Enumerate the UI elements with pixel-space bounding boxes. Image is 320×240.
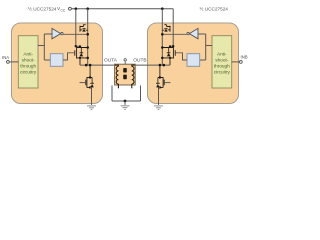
- svg-text:INB: INB: [241, 55, 248, 60]
- ground (right IC): [154, 106, 163, 110]
- wire OUTB from driver to bead block: [135, 64, 171, 66]
- wire Q6 gate (right): [164, 82, 170, 84]
- wire load return (left): [111, 86, 113, 102]
- junction dot P-gate node (right): [161, 33, 164, 36]
- svg-text:½ UCC27524: ½ UCC27524: [200, 6, 229, 12]
- wire INA to anti-shoot block: [9, 61, 18, 63]
- junction dots Q2 (left): [79, 45, 89, 59]
- junction dots Q3 (left): [89, 76, 91, 88]
- inductor L1 (left winding): [115, 65, 118, 88]
- transistor Q2 (N-channel pull-up, left): [75, 46, 88, 65]
- svg-text:shoot-: shoot-: [22, 58, 35, 63]
- diode D1 (body diode of Q1): [82, 29, 88, 32]
- svg-text:through: through: [214, 64, 230, 69]
- core bars of coupled beads: [123, 68, 127, 79]
- svg-text:circuitry: circuitry: [214, 70, 231, 75]
- block anti-shoot-through circuitry (right): [212, 36, 232, 88]
- wire inverter output to P-gate (left): [63, 33, 88, 35]
- svg-text:Anti-: Anti-: [217, 52, 227, 57]
- ground (load): [121, 106, 130, 110]
- transistor Q5 (N-channel pull-up, right): [162, 46, 175, 65]
- wire delay cell to Q5 gate (right): [175, 53, 187, 60]
- wire anti-shoot output bus (left): [38, 34, 52, 60]
- wire load return (right): [140, 86, 142, 102]
- svg-text:Anti-: Anti-: [23, 52, 33, 57]
- svg-text:shoot-: shoot-: [215, 58, 228, 63]
- junction dots on OUTB node: [159, 64, 166, 67]
- diode D4 (body diode of Q4): [162, 29, 168, 32]
- wire output bus (left): [87, 9, 89, 65]
- svg-text:through: through: [20, 64, 36, 69]
- wire delay cell to Q2 gate (left): [63, 53, 75, 60]
- wire VCC drop to Q1 source: [76, 9, 80, 47]
- wire VCC rail: [71, 8, 173, 10]
- svg-text:INA: INA: [2, 55, 9, 60]
- wire inverter output to P-gate (right): [162, 33, 187, 35]
- block delay cell (right): [187, 54, 200, 67]
- node VCC terminal: [57, 6, 71, 12]
- wire load node to ground: [124, 101, 126, 105]
- svg-text:circuitry: circuitry: [20, 70, 37, 75]
- inverter U1A: [52, 28, 63, 38]
- diode D3 (body diode of Q3): [90, 78, 94, 88]
- wire VCC drop to Q4 source: [170, 9, 173, 47]
- wire Q3 source to ground (left): [90, 87, 91, 105]
- transistor Q6 (N-channel pull-down, right): [158, 65, 164, 88]
- junction dots on VCC rail: [75, 7, 164, 10]
- wire load bottom rail: [112, 100, 141, 102]
- inverter U2A: [187, 28, 198, 38]
- junction dots on OUTA node: [85, 64, 92, 67]
- junction dot P-gate node (left): [86, 33, 89, 36]
- node INB terminal: [232, 55, 248, 64]
- junction load node: [124, 100, 127, 103]
- wire INB to anti-shoot block: [232, 61, 240, 63]
- transistor Q4 (P-channel pull-up, right): [164, 25, 170, 32]
- transistor Q1 (P-channel pull-up, left): [80, 25, 86, 32]
- IC U1 (left half UCC27524) body: [12, 23, 103, 104]
- inductor L2 (right winding): [132, 65, 135, 88]
- junction dot Q4 source jog (right): [172, 45, 174, 47]
- wire output bus (right): [161, 9, 163, 65]
- junction dot Q1 source jog (left): [75, 45, 77, 47]
- node INA terminal: [2, 55, 18, 63]
- wire anti-shoot output bus (right): [198, 34, 212, 60]
- ground (left IC): [87, 106, 96, 110]
- diode D2 (body diode of Q2): [79, 48, 83, 57]
- node center tap terminal: [124, 59, 126, 65]
- svg-text:OUTA: OUTA: [104, 58, 118, 64]
- ferrite bead block FB1/FB2: [115, 64, 136, 85]
- transistor Q3 (N-channel pull-down, left): [86, 65, 92, 88]
- block anti-shoot-through circuitry (left): [18, 36, 38, 88]
- diode D5 (body diode of Q5): [167, 48, 171, 57]
- svg-text:OUTB: OUTB: [133, 58, 146, 64]
- svg-text:½ UCC27524: ½ UCC27524: [28, 6, 57, 12]
- IC U2 (right half UCC27524) body: [148, 23, 239, 104]
- junction dots Q6 (right): [159, 76, 161, 88]
- svg-text:CC: CC: [61, 8, 66, 12]
- wire Q3 gate (left): [80, 82, 86, 84]
- junction dots Q5 (right): [161, 45, 171, 59]
- block delay cell (left): [50, 54, 63, 67]
- diode D6 (body diode of Q6): [156, 78, 160, 88]
- wire Q6 source to ground (right): [159, 87, 160, 105]
- wire OUTA from driver to bead block: [80, 64, 116, 66]
